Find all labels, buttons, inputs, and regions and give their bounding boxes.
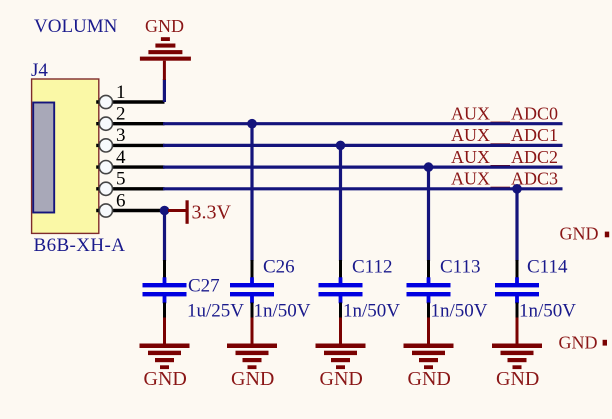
net label AUX_ADC2: [451, 147, 558, 167]
svg-text:1n/50V: 1n/50V: [343, 301, 400, 322]
svg-text:GND: GND: [145, 16, 184, 36]
capacitor C114: [495, 257, 576, 322]
svg-text:GND: GND: [144, 368, 187, 390]
junction pin6/C27: [160, 206, 170, 216]
svg-text:B6B-XH-A: B6B-XH-A: [34, 235, 126, 256]
svg-text:AUX: AUX: [451, 169, 490, 189]
svg-text:J4: J4: [31, 60, 48, 81]
pin 3: [96, 125, 164, 152]
net label AUX_ADC1: [451, 125, 558, 145]
svg-text:2: 2: [116, 104, 126, 125]
junction AUX_ADC0/C26: [247, 119, 257, 129]
pin 5: [96, 169, 164, 196]
pin 1: [96, 82, 164, 109]
svg-text:ADC1: ADC1: [511, 125, 558, 145]
wire C113 column: [427, 167, 430, 261]
power port GND right upper: [560, 224, 610, 244]
power port 3.3V: [168, 200, 232, 224]
net label AUX_ADC3: [451, 169, 558, 189]
power port GND under C26: [227, 318, 277, 390]
pin 6: [96, 190, 164, 217]
svg-text:GND: GND: [231, 368, 274, 390]
wire AUX_ADC0: [163, 122, 563, 125]
svg-text:C112: C112: [352, 257, 392, 278]
wire C114 column: [515, 189, 518, 261]
power port GND right lower: [559, 332, 608, 352]
svg-text:1: 1: [116, 82, 126, 103]
power port GND under C113: [404, 318, 454, 390]
svg-text:GND: GND: [559, 332, 598, 352]
svg-text:GND: GND: [496, 368, 539, 390]
svg-text:ADC0: ADC0: [511, 104, 558, 124]
svg-text:4: 4: [116, 147, 126, 168]
svg-text:AUX: AUX: [451, 104, 490, 124]
capacitor C113: [407, 257, 488, 322]
wire C112 column: [339, 145, 342, 261]
svg-text:GND: GND: [408, 368, 451, 390]
wire AUX_ADC1: [163, 144, 563, 147]
wire AUX_ADC3: [163, 187, 563, 190]
svg-text:1n/50V: 1n/50V: [519, 301, 576, 322]
svg-text:AUX: AUX: [451, 125, 490, 145]
svg-text:VOLUMN: VOLUMN: [34, 16, 118, 37]
svg-text:ADC2: ADC2: [511, 147, 558, 167]
power port GND under C112: [316, 318, 366, 390]
wire AUX_ADC2: [163, 166, 563, 169]
wire C27 column: [163, 211, 166, 262]
capacitor C26: [230, 257, 311, 322]
junction AUX_ADC2/C113: [424, 162, 434, 172]
svg-text:C26: C26: [263, 257, 295, 278]
svg-text:6: 6: [116, 190, 126, 211]
junction AUX_ADC3/C114: [512, 184, 522, 194]
capacitor C27: [143, 260, 245, 322]
pin 2: [96, 104, 164, 131]
svg-text:GND: GND: [320, 368, 363, 390]
svg-text:5: 5: [116, 169, 126, 190]
wire pin1 to GND: [163, 79, 166, 102]
svg-text:1u/25V: 1u/25V: [187, 301, 244, 322]
pin 4: [96, 147, 164, 174]
power port GND under C27: [140, 318, 190, 390]
svg-text:3.3V: 3.3V: [192, 202, 232, 224]
wire C26 column: [250, 124, 253, 261]
svg-text:C114: C114: [527, 257, 568, 278]
svg-text:C27: C27: [188, 275, 220, 296]
svg-text:1n/50V: 1n/50V: [431, 301, 488, 322]
svg-text:GND: GND: [560, 224, 599, 244]
svg-text:1n/50V: 1n/50V: [254, 301, 311, 322]
power port GND under C114: [492, 318, 542, 390]
capacitor C112: [319, 257, 401, 322]
connector J4 body: [32, 79, 99, 233]
svg-text:AUX: AUX: [451, 147, 490, 167]
svg-text:C113: C113: [440, 257, 480, 278]
net label AUX_ADC0: [451, 104, 558, 124]
svg-text:3: 3: [116, 125, 126, 146]
power port GND top: [140, 16, 191, 80]
junction AUX_ADC1/C112: [336, 141, 346, 151]
